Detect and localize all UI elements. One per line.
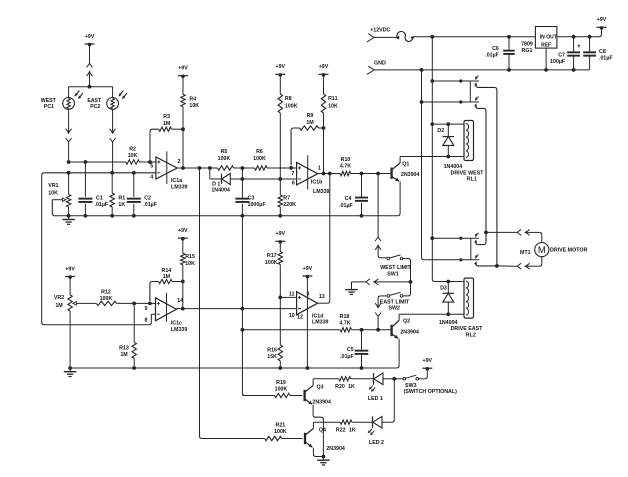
- svg-text:1M: 1M: [163, 121, 171, 127]
- wire IC1d output: [318, 174, 330, 304]
- svg-text:8: 8: [145, 317, 148, 323]
- svg-text:1K: 1K: [118, 202, 125, 208]
- svg-text:1M: 1M: [306, 120, 314, 126]
- node R4/R3 junction: [181, 166, 185, 170]
- wire +12V to breaker: [374, 36, 396, 38]
- svg-text:R1: R1: [118, 195, 125, 201]
- relay contact RL1-b: [461, 97, 479, 107]
- node EAST/R1 on bus2: [110, 171, 114, 175]
- node C4 tap: [360, 172, 364, 176]
- svg-text:4.7K: 4.7K: [339, 321, 350, 327]
- wire pin6 row: [242, 178, 296, 180]
- connector arrow half (PC2 lead): [110, 129, 116, 135]
- wire output to R3/R4: [182, 129, 184, 168]
- pin label 2: [178, 159, 181, 165]
- connector chevron (motor wire b): [497, 263, 521, 269]
- node C5 on rail: [360, 366, 364, 370]
- connector arrow (SW2 lead): [375, 303, 381, 309]
- capacitor C3: [235, 179, 266, 216]
- svg-text:R8: R8: [285, 96, 292, 102]
- svg-text:WEST LIMIT: WEST LIMIT: [380, 265, 411, 271]
- wire R2 to IC1a pin5: [140, 161, 156, 163]
- svg-text:Q2: Q2: [403, 319, 410, 325]
- pin label 6: [292, 180, 295, 186]
- voltage regulator RG1 7809: [521, 27, 557, 55]
- svg-text:R3: R3: [163, 114, 170, 120]
- wire contact3 to motor-a: [476, 232, 486, 244]
- resistor R1: [110, 173, 125, 216]
- svg-text:IC1a: IC1a: [171, 178, 182, 184]
- svg-text:D3: D3: [440, 285, 447, 291]
- corner left wire bottom: [42, 322, 45, 325]
- node contact4 terminal: [459, 258, 462, 261]
- wire R18 to Q2: [352, 329, 391, 331]
- power symbol +9V (IC1d): [302, 266, 312, 279]
- svg-text:C5: C5: [347, 347, 354, 353]
- potentiometer VR2: [54, 277, 79, 311]
- power symbol +9V (R15): [178, 228, 188, 241]
- wire Q2 collector row: [399, 313, 464, 315]
- svg-text:R20: R20: [335, 384, 345, 390]
- wire VR2 wiper to R12: [79, 302, 97, 304]
- node R15 on output: [181, 307, 185, 311]
- svg-text:1N4004: 1N4004: [444, 164, 463, 170]
- node D1/C3: [241, 177, 245, 181]
- svg-text:R16: R16: [267, 348, 277, 354]
- switch SW2 EAST LIMIT: [380, 292, 410, 311]
- node R11 on output: [322, 172, 326, 176]
- corner motor top lead: [539, 232, 542, 242]
- node C3-chain on output: [241, 307, 245, 311]
- svg-text:220K: 220K: [283, 202, 296, 208]
- potentiometer VR1: [48, 183, 71, 207]
- wire motor bottom lead: [526, 257, 542, 267]
- connector arrow half (PC1 lead): [66, 129, 72, 135]
- ground (Q4): [317, 457, 330, 466]
- resistor R6: [253, 149, 267, 170]
- power pin line IC1d: [306, 277, 308, 368]
- pin label 3: [307, 291, 310, 297]
- svg-text:C4: C4: [345, 196, 352, 202]
- node RL1 contact feed: [430, 79, 434, 83]
- motor MT1: [520, 243, 587, 257]
- connector arrow (limit lower): [375, 244, 381, 255]
- node C1 tap: [84, 160, 88, 164]
- power pin line IC1b: [307, 155, 309, 190]
- node R16 on rail: [278, 366, 282, 370]
- node C5 tap: [360, 328, 364, 332]
- capacitor C1: [78, 162, 109, 216]
- capacitor C5: [340, 330, 368, 368]
- svg-text:D 1: D 1: [212, 181, 220, 187]
- connector arrow half (sensor plug lower): [87, 70, 93, 86]
- transistor Q3 2N3904: [305, 379, 331, 415]
- node C2 on bus2: [132, 171, 136, 175]
- connector chevron (ground wire): [366, 279, 370, 285]
- wire IC1b output: [318, 173, 340, 175]
- svg-text:+9V: +9V: [178, 66, 188, 72]
- wire R5-R6: [234, 167, 255, 169]
- corner +12V to RL2 coil: [432, 279, 464, 282]
- resistor R18: [339, 314, 351, 332]
- svg-text:+9V: +9V: [85, 34, 95, 40]
- LED 1: [368, 373, 383, 402]
- node IC1d output join: [328, 172, 332, 176]
- resistor R14: [150, 268, 183, 301]
- svg-text:DRIVE MOTOR: DRIVE MOTOR: [550, 248, 587, 254]
- svg-text:2N3904: 2N3904: [312, 399, 331, 405]
- wire motor row1: [486, 231, 517, 233]
- resistor R11: [321, 75, 338, 128]
- svg-text:+9V: +9V: [423, 358, 433, 364]
- pin label 10: [289, 313, 295, 319]
- node C7 top: [572, 35, 576, 39]
- corner GND to RL2 contact: [422, 257, 461, 260]
- node SW2 on Q2 base row: [376, 328, 380, 332]
- svg-text:1M: 1M: [55, 303, 63, 309]
- connector chevron half (PC1 board): [66, 138, 72, 162]
- wire contact1 to motor-b: [476, 84, 497, 266]
- svg-text:100K: 100K: [265, 260, 278, 266]
- node R17/R16 junction: [278, 296, 282, 300]
- svg-text:D2: D2: [437, 128, 444, 134]
- node R13 on gnd rail: [132, 366, 136, 370]
- connector chevron half (sensor plug upper): [87, 63, 93, 67]
- wire to PC2: [112, 87, 114, 98]
- svg-text:+9V: +9V: [65, 266, 75, 272]
- wire VR1 bottom: [68, 207, 70, 216]
- resistor R10: [340, 157, 351, 176]
- node C6 top: [507, 35, 511, 39]
- connector GND input: [367, 60, 386, 74]
- switch SW3: [394, 369, 457, 395]
- svg-text:R2: R2: [129, 147, 136, 153]
- svg-text:1N4004: 1N4004: [439, 320, 458, 326]
- wire GND row: [374, 69, 589, 71]
- node contact1 terminal: [459, 79, 462, 82]
- wire RL1 coil top row: [432, 123, 464, 125]
- node +12V branch: [430, 35, 434, 39]
- svg-text:100K: 100K: [275, 386, 288, 392]
- wire photocell top bus: [69, 86, 113, 88]
- corner bus2 to left rail: [42, 173, 45, 176]
- wire contact2 to motor-a: [476, 105, 486, 232]
- svg-text:100K: 100K: [253, 156, 266, 162]
- svg-text:Q4: Q4: [319, 427, 326, 433]
- svg-text:SW1: SW1: [387, 272, 399, 278]
- svg-text:C6: C6: [492, 46, 499, 52]
- wire R20 row: [313, 378, 373, 380]
- resistor R22: [336, 420, 356, 433]
- svg-text:.01µF: .01µF: [95, 202, 109, 208]
- connector chevron (limit upper): [375, 237, 381, 241]
- svg-text:R21: R21: [276, 423, 286, 429]
- wire regulator REF down: [545, 48, 547, 70]
- svg-text:+12VDC: +12VDC: [370, 27, 390, 33]
- corner gnd rail to Q2: [397, 366, 400, 369]
- node WEST on bus1: [67, 160, 71, 164]
- wire RL2 contact row3: [432, 237, 461, 239]
- wire IC1a output: [177, 167, 217, 169]
- wire pin11 row: [280, 296, 296, 298]
- transistor Q4 2N3904: [305, 422, 345, 456]
- node C4 on rail: [360, 214, 364, 218]
- svg-text:IC1c: IC1c: [171, 320, 182, 326]
- node limit-switch tap: [376, 172, 380, 176]
- connector arrow (motor lead a): [524, 229, 539, 235]
- svg-text:10K: 10K: [128, 153, 138, 159]
- relay contact RL2-b: [461, 255, 479, 265]
- node limit common: [409, 280, 413, 284]
- svg-text:+9V: +9V: [597, 17, 607, 23]
- node R14/R15: [181, 280, 185, 284]
- mechanical link RL2 contacts: [470, 238, 472, 260]
- power pin line IC1c: [166, 293, 168, 322]
- power symbol +9V (R17): [275, 231, 285, 244]
- svg-text:.01µF: .01µF: [339, 203, 353, 209]
- transistor Q1 2N3904: [392, 157, 420, 214]
- node C8 top: [588, 35, 592, 39]
- wire Q1 collector row: [400, 156, 464, 158]
- op-amp IC1a LM339: [156, 157, 188, 191]
- svg-text:1K: 1K: [349, 427, 356, 433]
- relay contact RL1-a: [461, 76, 479, 86]
- corner pin8 loop: [149, 322, 152, 325]
- capacitor C7 100uF: [550, 37, 581, 70]
- resistor R2: [126, 147, 140, 165]
- svg-text:LM339: LM339: [312, 320, 329, 326]
- node R3 feedback on pin5: [148, 160, 152, 164]
- relay coil RL1: [444, 121, 485, 183]
- svg-text:1000µF: 1000µF: [248, 202, 267, 208]
- svg-text:DRIVE EAST: DRIVE EAST: [451, 326, 484, 332]
- photocell PC1 (WEST): [41, 91, 83, 111]
- svg-text:100K: 100K: [218, 156, 231, 162]
- svg-text:RL2: RL2: [466, 332, 476, 338]
- wire IC1c output row: [176, 308, 296, 310]
- resistor R9: [291, 113, 323, 165]
- diode D3 1N4004: [440, 282, 454, 315]
- node C1 on rail: [84, 214, 88, 218]
- node D3 bottom: [446, 312, 450, 316]
- svg-text:7809: 7809: [521, 41, 533, 47]
- svg-text:RL1: RL1: [467, 177, 477, 183]
- node R9/R11: [322, 126, 326, 130]
- diode D2 1N4004: [437, 124, 454, 156]
- svg-text:2N3904: 2N3904: [401, 172, 420, 178]
- svg-text:Q3: Q3: [317, 384, 324, 390]
- svg-text:.01µF: .01µF: [485, 52, 499, 58]
- resistor R16: [267, 297, 282, 368]
- node R14 tap: [148, 302, 152, 306]
- node GND branch: [420, 68, 424, 72]
- svg-text:9: 9: [145, 306, 148, 312]
- power pin line IC1a: [166, 151, 168, 184]
- svg-text:R22: R22: [336, 427, 346, 433]
- wire RL1 contact row1: [432, 80, 461, 82]
- svg-text:.01µF: .01µF: [143, 202, 157, 208]
- node RL2 contact feed: [430, 236, 434, 240]
- pin label 9: [145, 306, 148, 312]
- svg-text:M: M: [538, 244, 546, 255]
- node R9 feedback on pin7: [289, 166, 293, 170]
- node contact2 terminal: [459, 100, 462, 103]
- wire bus2 to VR1: [68, 173, 70, 195]
- svg-text:VR2: VR2: [54, 295, 64, 301]
- node R7/R8 on pin6: [278, 177, 282, 181]
- svg-text:4: 4: [150, 175, 153, 181]
- wire to PC1: [68, 87, 70, 98]
- svg-text:+9V: +9V: [276, 231, 286, 237]
- capacitor C6: [485, 37, 514, 70]
- connector chevron half (PC2 board): [110, 138, 116, 173]
- svg-text:R6: R6: [256, 149, 263, 155]
- wire R15 to output: [182, 282, 184, 309]
- pin label 5: [150, 164, 153, 170]
- svg-text:RG1: RG1: [522, 48, 533, 54]
- connector arrow (motor lead b): [524, 263, 530, 269]
- svg-text:+9V: +9V: [303, 266, 313, 272]
- node R5/R6/C3: [241, 166, 245, 170]
- node D2 bottom: [446, 155, 450, 159]
- node VR1/WEST on bus2: [67, 171, 71, 175]
- wire PC1 down: [68, 109, 70, 131]
- svg-text:13: 13: [319, 294, 325, 300]
- diode D1 1N4004: [211, 173, 230, 193]
- resistor R3: [150, 114, 183, 162]
- relay contact RL2-a: [461, 233, 479, 243]
- node C2 on rail: [132, 214, 136, 218]
- switch SW1 WEST LIMIT: [380, 255, 411, 278]
- wire R10 to Q1: [351, 173, 391, 175]
- svg-text:R9: R9: [307, 113, 314, 119]
- wire breaker to regulator: [413, 36, 535, 38]
- node SW3 junction: [392, 377, 396, 381]
- node C6 bottom: [507, 68, 511, 72]
- resistor R21: [265, 423, 287, 441]
- svg-text:LM339: LM339: [171, 327, 188, 333]
- node motor row1 junction: [484, 231, 488, 235]
- power symbol +9V (R8): [275, 64, 285, 77]
- wire left vertical to IC1c pin8: [41, 175, 43, 322]
- svg-text:100µF: 100µF: [550, 59, 566, 65]
- capacitor C8 .01uF: [583, 37, 613, 70]
- power symbol +9V (photocell supply): [85, 34, 95, 46]
- node chain on R18 row: [241, 328, 245, 332]
- node RL1 contact2 feed: [420, 100, 424, 104]
- wire R6 to IC1b pin7: [267, 167, 297, 169]
- resistor R5: [218, 149, 234, 170]
- svg-text:15K: 15K: [267, 354, 277, 360]
- svg-text:1M: 1M: [163, 274, 171, 280]
- svg-text:LED 2: LED 2: [369, 440, 384, 446]
- node REF on GND: [544, 68, 548, 72]
- svg-text:6: 6: [292, 180, 295, 186]
- svg-text:R19: R19: [276, 380, 286, 386]
- wire R5 to D1 link: [241, 168, 243, 179]
- svg-text:10K: 10K: [185, 261, 195, 267]
- svg-text:IC1d: IC1d: [312, 313, 323, 319]
- node C3 on rail: [241, 214, 245, 218]
- wire R12 to pin9: [117, 302, 156, 304]
- svg-text:IC1b: IC1b: [311, 180, 323, 186]
- node D2 top: [446, 122, 450, 126]
- resistor R19: [275, 380, 291, 398]
- svg-text:EAST LIMIT: EAST LIMIT: [380, 299, 410, 305]
- power symbol +9V (R11): [319, 64, 329, 77]
- wire LED1 to SW3 node: [383, 378, 394, 380]
- wire D1 branch down: [209, 168, 211, 179]
- svg-text:1N4004: 1N4004: [211, 188, 230, 194]
- svg-text:100K: 100K: [274, 429, 287, 435]
- node R13 tap: [132, 302, 136, 306]
- pin label 8: [145, 317, 148, 323]
- svg-text:100K: 100K: [285, 103, 298, 109]
- svg-text:Q1: Q1: [402, 161, 409, 167]
- svg-text:R7: R7: [283, 195, 290, 201]
- svg-text:DRIVE WEST: DRIVE WEST: [451, 170, 485, 176]
- mechanical link RL1 contacts: [469, 81, 471, 102]
- pin label 13: [319, 294, 325, 300]
- corner long vertical to R21: [200, 436, 203, 439]
- wire R21 row: [202, 438, 303, 440]
- svg-text:+: +: [577, 43, 581, 50]
- resistor R4: [181, 76, 199, 129]
- node VR1 on rail: [67, 214, 71, 218]
- resistor R15: [181, 239, 195, 282]
- corner to SW1: [378, 255, 387, 257]
- svg-text:MT1: MT1: [520, 250, 531, 256]
- breaker symbol: [395, 31, 415, 41]
- connector arrow (switch wire): [373, 279, 379, 285]
- connector +12VDC input: [367, 27, 391, 42]
- wire Q2 base row: [242, 329, 340, 331]
- svg-text:R12: R12: [101, 290, 111, 296]
- wire SW2 to connector: [378, 296, 387, 306]
- wire gnd rail (lower): [70, 367, 397, 369]
- svg-text:100K: 100K: [100, 296, 113, 302]
- wire common to SW2: [403, 282, 411, 296]
- op-amp IC1c LM339: [156, 298, 188, 333]
- LED 2: [368, 416, 384, 446]
- svg-text:OUT: OUT: [546, 34, 557, 40]
- wire GND vertical: [421, 70, 423, 257]
- ground (VR2): [64, 368, 77, 377]
- node Q3/Q4 emitter join: [322, 455, 326, 459]
- svg-text:C7: C7: [558, 52, 565, 58]
- pin label 14: [177, 298, 183, 304]
- power symbol +9V (regulator output): [597, 17, 607, 30]
- photocell PC2 (EAST): [87, 91, 127, 111]
- svg-text:C1: C1: [96, 195, 103, 201]
- svg-text:1K: 1K: [348, 384, 355, 390]
- svg-text:SW3: SW3: [405, 383, 417, 389]
- wire VR1 wiper loop: [52, 200, 60, 216]
- wire RL1 contact row2: [422, 101, 461, 103]
- pin label 11: [289, 291, 295, 297]
- resistor R12: [96, 290, 116, 306]
- wire regulator out: [557, 36, 599, 38]
- ground (limit switches): [345, 282, 410, 295]
- pin label 4: [150, 175, 153, 181]
- node +12V to coil: [430, 122, 434, 126]
- resistor R20: [335, 377, 355, 390]
- node D3 top: [446, 280, 450, 284]
- svg-text:LM339: LM339: [171, 185, 188, 191]
- svg-text:PC1: PC1: [44, 104, 54, 110]
- node D1 branch: [208, 166, 212, 170]
- pin label 12: [297, 314, 303, 320]
